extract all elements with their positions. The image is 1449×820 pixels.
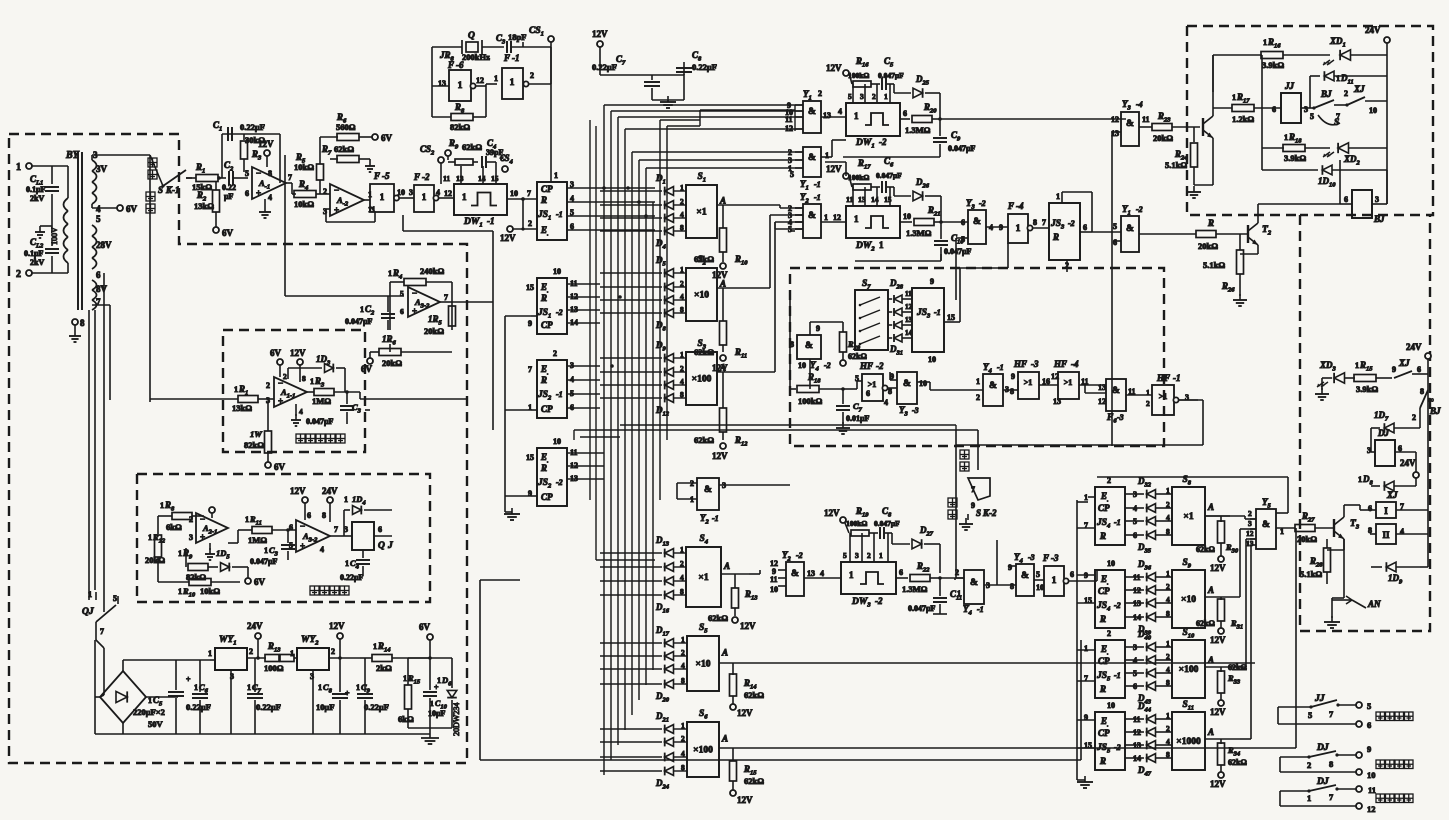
svg-text:8: 8 [680,587,684,596]
svg-text:11: 11 [785,115,793,124]
svg-text:1: 1 [148,533,152,542]
svg-text:0.047μF: 0.047μF [306,417,334,426]
svg-text:9: 9 [930,277,934,286]
svg-text:-5: -5 [382,171,390,181]
svg-text:0.047μF: 0.047μF [948,144,976,153]
svg-text:8: 8 [1420,387,1424,396]
svg-text:2: 2 [553,349,557,358]
svg-text:-3: -3 [1051,553,1059,563]
gate Y5 [1256,509,1276,549]
svg-text:1: 1 [344,495,348,504]
svg-text:1: 1 [437,676,441,685]
svg-text:12: 12 [476,76,484,85]
svg-text:A: A [1207,502,1214,512]
capacitor C4 39pF [481,156,483,168]
svg-text:-2: -2 [556,308,563,317]
svg-text:5: 5 [788,225,792,234]
svg-text:1: 1 [1307,793,1311,803]
wire lockout out [359,392,361,399]
counter S10 diodes [1147,643,1156,652]
resistor 1R15b 3.9k [1354,375,1376,382]
svg-text:-2: -2 [824,361,831,370]
svg-text:62kΩ: 62kΩ [334,144,354,154]
svg-text:6V: 6V [222,228,234,238]
svg-text:12: 12 [785,124,793,133]
svg-text:3: 3 [344,525,348,534]
switch AN [1346,596,1352,604]
svg-text:8: 8 [1166,527,1170,536]
wire F-3 to JS4 [1096,570,1098,581]
svg-text:9: 9 [971,501,975,510]
svg-text:9: 9 [1008,563,1012,572]
svg-text:0.047μF: 0.047μF [876,171,902,180]
svg-text:3: 3 [1248,519,1252,528]
svg-text:6: 6 [903,109,907,118]
wire left vertical risers from transformer [88,310,90,600]
svg-text:2: 2 [976,393,980,402]
svg-text:2: 2 [283,372,287,381]
svg-text:20kΩ: 20kΩ [424,326,444,336]
terminal 24V lower right [1413,472,1419,478]
diode D27 [891,533,893,544]
svg-text:A: A [723,561,730,571]
svg-text:&: & [1126,119,1134,129]
capacitor C3a [346,392,348,404]
svg-text:6kΩ: 6kΩ [398,714,414,724]
svg-text:15: 15 [947,313,955,322]
svg-text:1: 1 [957,589,961,598]
resistor 1R18 3.9k [1261,55,1263,148]
svg-text:1.2kΩ: 1.2kΩ [1232,114,1254,124]
svg-text:6: 6 [307,511,311,520]
svg-text:10kΩ: 10kΩ [294,162,314,172]
svg-text:1: 1 [1166,569,1170,578]
svg-text:82kΩ: 82kΩ [450,122,470,132]
svg-text:XJ: XJ [1353,84,1365,94]
svg-text:×10: ×10 [694,291,709,301]
counter S4 diodes [665,549,674,558]
wire mains sample vertical x285 [284,155,286,296]
svg-text:5: 5 [400,289,404,298]
diode 1D11 [1309,76,1311,108]
gate Y3-2 [968,210,986,244]
terminal 12V power [337,633,343,639]
svg-text:-1: -1 [512,53,520,63]
svg-text:2: 2 [1307,760,1311,770]
resistor 1R3 1M [307,391,314,393]
diode 1D9 [1371,566,1382,568]
svg-text:I: I [1384,506,1388,516]
svg-text:8: 8 [681,676,685,685]
resistor R23 [1139,126,1152,128]
svg-text:12V: 12V [737,795,753,805]
svg-text:2kV: 2kV [30,194,44,203]
svg-text:S: S [1334,118,1339,128]
wire HF box entry [789,290,791,389]
svg-text:F: F [1042,553,1049,563]
resistor R18b 100k [790,388,796,390]
resistor R2 13k [215,182,217,190]
svg-text:12V: 12V [1210,635,1226,645]
svg-text:DJ: DJ [1377,428,1389,438]
svg-text:3: 3 [855,551,859,560]
svg-text:0.047μF: 0.047μF [250,557,278,566]
ground C7 C8 [652,99,684,101]
svg-text:&: & [973,217,981,227]
svg-text:×1: ×1 [698,573,708,583]
svg-text:2kV: 2kV [30,258,44,267]
svg-text:3.9kΩ: 3.9kΩ [1262,60,1284,70]
svg-text:-1: -1 [556,390,563,399]
terminal CS4 [502,166,508,172]
svg-text:-3: -3 [1031,359,1039,369]
contact XJ 2-10 [1345,103,1348,106]
svg-text:μF: μF [224,192,234,201]
svg-text:4: 4 [96,204,101,214]
capacitor 1C3 [286,528,290,532]
monostable DW1-2 [846,103,900,136]
svg-text:R: R [1099,756,1106,766]
svg-text:1MΩ: 1MΩ [312,396,331,406]
svg-text:13: 13 [807,569,815,578]
wire SK1 riser [149,155,151,402]
counter control JS1-1 [537,182,567,240]
svg-text:4: 4 [680,292,684,301]
svg-text:XJ: XJ [1398,358,1410,368]
svg-text:10μF: 10μF [316,702,335,712]
svg-text:220μF×2: 220μF×2 [133,707,165,717]
svg-text:6: 6 [1070,570,1074,579]
wire QJ down [95,622,97,640]
svg-text:1: 1 [310,377,314,386]
op-amp A-2 [330,184,364,216]
svg-text:62kΩ: 62kΩ [1196,619,1215,628]
svg-text:-2: -2 [875,596,883,606]
wire S11 A to Y5 [1240,738,1251,740]
resistor R28 5.1k [1326,539,1328,548]
svg-text:2: 2 [1166,652,1170,661]
svg-text:CP: CP [1098,586,1110,596]
resistor R5 10k vertical [319,161,321,164]
svg-text:-2: -2 [796,551,803,560]
monostable DW1-1 [454,184,507,215]
svg-text:24V: 24V [247,621,263,631]
label low voltage lockout [296,434,305,443]
svg-text:1: 1 [430,699,434,708]
svg-text:12V: 12V [592,29,608,39]
wire F1 out [529,83,551,85]
svg-text:1: 1 [824,213,828,222]
svg-text:8: 8 [1010,582,1014,591]
svg-text:1: 1 [1166,711,1170,720]
wire DW1-1 out to JS1-1 [507,198,537,200]
svg-text:CP: CP [541,320,553,330]
svg-text:10kΩ: 10kΩ [294,199,314,209]
svg-text:20kΩ: 20kΩ [1198,241,1218,251]
svg-text:&: & [791,569,799,579]
wire vertical x1112 from Y3-4 to HF box [1111,132,1113,446]
op-amp A-1 [252,167,286,199]
switch SK-1 [150,155,163,186]
svg-text:8: 8 [268,169,272,178]
wire F-5 feedback loop down [402,215,404,231]
resistor R1 15k [186,177,196,179]
op-amp 1A1-1 [274,377,307,407]
svg-text:13kΩ: 13kΩ [194,201,214,211]
svg-text:A: A [1207,655,1214,665]
svg-text:1: 1 [194,683,198,692]
svg-text:8: 8 [302,374,306,383]
svg-text:-2: -2 [1114,743,1121,752]
wire transformer top to SK-1 [92,154,150,156]
svg-text:10: 10 [1107,701,1115,710]
wire S8 A to Y5 [1205,515,1245,517]
counter S1 [686,185,717,238]
wire S5 A out long right [749,662,1255,664]
svg-text:-2: -2 [556,478,563,487]
svg-text:1: 1 [1084,644,1088,653]
svg-text:12V: 12V [329,621,345,631]
svg-text:2: 2 [249,647,253,656]
svg-text:1: 1 [356,683,360,692]
label voltage switch [310,586,319,595]
gate HF-2 [862,374,883,401]
svg-text:100kΩ: 100kΩ [848,173,869,182]
wire S10 A to Y5 [1240,666,1246,668]
svg-text:1: 1 [825,151,829,160]
capacitor 1C9 [364,658,366,692]
wire DW2-1 to Y3-3 [940,254,942,260]
svg-text:×10: ×10 [1181,595,1196,605]
svg-text:10: 10 [919,379,927,388]
wire R20 to Y3-4 long [940,118,1126,120]
capacitor C7b 0.01 [842,389,844,404]
svg-text:5.1kΩ: 5.1kΩ [1165,160,1187,170]
svg-text:62kΩ: 62kΩ [744,690,764,700]
terminal 6V secondary [117,205,123,211]
svg-text:0.22: 0.22 [222,183,236,192]
svg-text:12V: 12V [1210,707,1226,717]
wire Y1 to DW1-2 [821,116,846,118]
svg-text:&: & [808,153,816,163]
svg-text:2: 2 [1107,629,1111,638]
ground CL mid [51,225,53,232]
terminal 24V power [255,633,261,639]
resistor R24 [1193,127,1195,142]
svg-text:-4: -4 [1136,100,1143,109]
svg-text:11: 11 [443,174,450,183]
resistor R26 [1239,234,1241,250]
I contact block [1376,502,1396,518]
wire F6 to F1 [475,85,486,87]
svg-text:JJ: JJ [1314,694,1325,704]
regulator WY2 [297,648,329,670]
svg-text:240kΩ: 240kΩ [420,266,444,276]
svg-text:1.3MΩ: 1.3MΩ [905,125,931,135]
capacitor 1C8 [339,658,341,692]
svg-text:1: 1 [879,551,883,560]
svg-text:&: & [1112,386,1120,396]
resistor R3 30k vertical [243,134,245,140]
12V R19 C8b over DW2-2 [840,517,846,523]
T2 emitter down [1257,245,1259,254]
svg-text:CP: CP [541,184,553,194]
svg-text:0.1μF: 0.1μF [24,249,44,258]
svg-text:18pF: 18pF [508,32,526,42]
svg-text:K-2: K-2 [982,508,997,518]
svg-text:1: 1 [290,649,294,658]
svg-text:1: 1 [849,570,854,580]
wire R21 junction to Y3-2 [941,221,968,223]
capacitor C3 18pF [506,41,508,53]
svg-text:7: 7 [288,173,292,182]
svg-text:5: 5 [113,594,117,603]
svg-text:×100: ×100 [692,375,712,385]
feedback wire to C1 [221,134,223,178]
svg-text:8: 8 [1166,609,1170,618]
svg-text:10: 10 [928,355,936,364]
wire R22 to Y4-1b [940,577,964,579]
resistor R4 10k [292,193,296,195]
svg-text:1.3MΩ: 1.3MΩ [902,584,928,594]
wire from HF1 out down [1178,399,1203,401]
12V R16 C5 over DW1-2 [843,70,849,76]
transformer secondary 3V winding [92,160,97,171]
svg-text:2: 2 [1146,399,1150,408]
counter S8 [1172,487,1205,545]
svg-text:12: 12 [1051,372,1059,381]
resistor 1R10 10k [157,572,159,582]
svg-text:13: 13 [456,174,464,183]
resistor R15 [719,747,749,749]
svg-text:-1: -1 [1114,518,1121,527]
wire verticals below S blocks [589,120,591,500]
svg-text:1: 1 [554,171,558,180]
svg-text:1: 1 [264,546,268,555]
svg-text:7: 7 [1042,218,1046,227]
bus horizontal lines to gate Y1-1 [632,151,803,153]
svg-text:6V: 6V [419,622,431,632]
svg-text:8: 8 [1010,387,1014,396]
counter S4 [686,547,721,607]
svg-text:5: 5 [848,92,852,101]
diode 1D5 [221,563,230,572]
gate Fc-3 [1106,379,1126,411]
svg-text:4: 4 [299,407,303,416]
svg-text:1: 1 [458,81,463,91]
resistor R9 62k top [447,156,449,160]
svg-text:6V: 6V [254,577,266,587]
wire F5 to F2 [399,197,414,199]
monostable DW2-1 [846,206,900,238]
ground T1 [1194,184,1213,186]
svg-text:24V: 24V [1400,458,1416,468]
svg-text:0.047μF: 0.047μF [908,604,936,613]
svg-text:13: 13 [823,111,831,120]
svg-text:100Ω: 100Ω [264,663,284,673]
flip-flop JS3-1 [912,288,944,352]
resistor R31 [1205,596,1240,598]
resistor R12 [717,371,745,373]
svg-text:1: 1 [1146,388,1150,397]
wires JS1-1 to diodes D1-D4 [567,187,655,189]
svg-text:62kΩ: 62kΩ [744,776,764,786]
svg-text:7: 7 [444,293,448,302]
svg-text:100kΩ: 100kΩ [798,396,822,406]
svg-text:0.22μF: 0.22μF [364,702,389,712]
svg-text:8: 8 [80,318,85,328]
svg-text:10: 10 [770,585,778,594]
svg-text:12V: 12V [824,508,840,518]
svg-text:R: R [1099,531,1106,541]
svg-text:6: 6 [96,270,101,280]
gate Y2-1 [803,204,821,238]
svg-text:&: & [808,107,816,117]
svg-text:0.22μF: 0.22μF [340,573,364,582]
wire SK-1 to R1 [186,177,192,179]
svg-text:>1: >1 [1024,378,1033,387]
svg-text:A: A [1207,585,1214,595]
svg-text:20kΩ: 20kΩ [382,358,402,368]
svg-text:15: 15 [491,174,499,183]
svg-text:4: 4 [681,661,685,670]
svg-text:1: 1 [16,162,21,173]
svg-text:1: 1 [976,377,980,386]
svg-text:BJ: BJ [1429,406,1441,416]
capacitor C10 [940,222,942,239]
LED XD2 [1338,143,1348,153]
svg-text:6: 6 [1368,504,1372,513]
bus horizontal line to gate Y2-1 [775,228,803,230]
op-amp 1A2-1 [196,513,228,543]
wire S6 A out long right [749,747,1296,749]
svg-text:12V: 12V [290,348,306,358]
svg-text:9: 9 [1367,744,1371,754]
svg-text:8: 8 [680,305,684,314]
wire Y3-2 lower [956,237,968,239]
terminal 6V right 1D5 [247,567,249,578]
svg-text:8V: 8V [96,284,108,294]
wire CS1 top to crystal [522,42,524,47]
relay DJ block right [1375,440,1395,466]
svg-text:1: 1 [160,501,164,510]
capacitor C7 [651,75,653,80]
svg-text:13: 13 [1246,539,1254,548]
svg-text:1: 1 [247,683,251,692]
svg-text:II: II [1382,530,1390,540]
svg-text:13kΩ: 13kΩ [232,403,252,413]
svg-text:-1: -1 [934,308,941,317]
svg-text:10μF: 10μF [428,709,446,718]
svg-text:2: 2 [681,734,685,743]
svg-text:+: + [334,205,339,215]
svg-text:1: 1 [1355,361,1359,370]
svg-text:4: 4 [1166,595,1170,604]
svg-text:62kΩ: 62kΩ [848,352,867,361]
svg-text:−: − [256,168,261,178]
svg-text:1: 1 [422,192,427,202]
switch S [1318,115,1340,125]
op-amp 1A3-2 [296,520,330,552]
diode D25 [893,84,895,93]
svg-text:QJ: QJ [82,607,94,617]
svg-text:5: 5 [843,551,847,560]
svg-text:8: 8 [1329,759,1333,769]
svg-text:0.22μF: 0.22μF [256,702,281,712]
terminal CS1 [548,36,554,42]
regulator WY1 [215,648,247,670]
svg-text:+: + [412,306,417,316]
